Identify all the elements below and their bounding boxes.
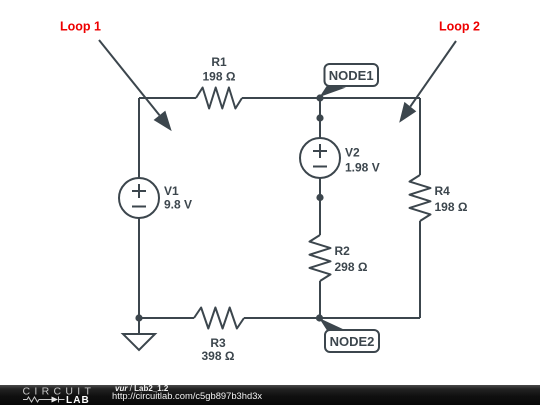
svg-text:198 Ω: 198 Ω <box>435 200 468 214</box>
svg-text:R4: R4 <box>435 184 451 198</box>
svg-text:Loop 1: Loop 1 <box>60 20 101 34</box>
svg-text:NODE2: NODE2 <box>330 334 375 349</box>
svg-text:R2: R2 <box>335 244 351 258</box>
svg-text:V1: V1 <box>164 184 179 198</box>
svg-text:V2: V2 <box>345 146 360 160</box>
svg-text:Loop 2: Loop 2 <box>439 20 480 34</box>
svg-text:398 Ω: 398 Ω <box>202 349 235 363</box>
svg-text:R3: R3 <box>210 336 226 350</box>
svg-text:298 Ω: 298 Ω <box>335 260 368 274</box>
svg-text:R1: R1 <box>211 55 227 69</box>
svg-text:NODE1: NODE1 <box>329 68 374 83</box>
svg-text:198 Ω: 198 Ω <box>203 70 236 84</box>
svg-text:LAB: LAB <box>66 395 90 405</box>
svg-text:1.98 V: 1.98 V <box>345 161 380 175</box>
svg-text:9.8 V: 9.8 V <box>164 198 192 212</box>
